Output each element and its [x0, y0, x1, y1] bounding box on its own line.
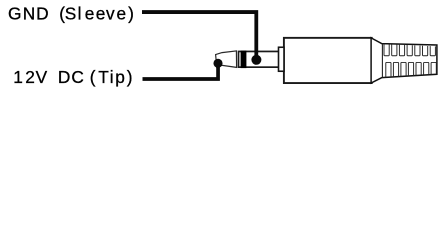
svg-text:12V DC (Tip): 12V DC (Tip)	[13, 67, 132, 87]
